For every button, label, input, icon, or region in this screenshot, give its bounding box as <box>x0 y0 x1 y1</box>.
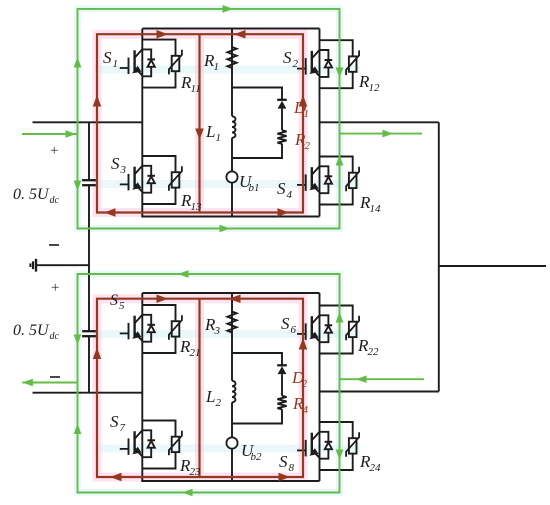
wire top bridge R1 branch <box>231 29 233 217</box>
wire DC link vertical <box>88 122 90 392</box>
node plus upper <box>50 143 58 159</box>
anti-parallel diode of S8 <box>325 442 333 449</box>
voltage source Ub1 <box>226 171 237 182</box>
svg-text:6: 6 <box>291 324 297 336</box>
label R13 <box>180 191 202 213</box>
inductor L1 <box>232 116 236 138</box>
label R21 <box>179 337 201 359</box>
IGBT S7 <box>120 430 143 456</box>
wire diode branch of S7 <box>142 430 151 457</box>
IGBT S2 <box>297 50 320 76</box>
wire output to right edge <box>439 265 546 267</box>
label 0.5Udc lower <box>13 322 60 342</box>
wire top bridge right leg <box>319 29 321 217</box>
label S4 <box>277 179 293 201</box>
svg-text:S: S <box>277 179 286 198</box>
wire varistor branch of S3 <box>142 156 175 204</box>
inductor L2 <box>232 381 236 403</box>
wire top bridge bottom rail <box>141 216 319 218</box>
svg-text:b2: b2 <box>251 451 263 463</box>
wire bottom bridge top rail <box>142 292 319 294</box>
svg-text:11: 11 <box>191 83 201 95</box>
varistor of S2 <box>346 50 359 75</box>
wire top midpoint line right <box>320 121 439 123</box>
wire varistor branch of S7 <box>142 421 175 469</box>
svg-text:23: 23 <box>190 466 202 478</box>
node green arrows top <box>66 5 394 232</box>
varistor of S8 <box>346 432 359 457</box>
label R23 <box>179 456 201 478</box>
label S2 <box>283 48 299 70</box>
svg-text:1: 1 <box>113 58 119 70</box>
label D1 <box>293 98 309 120</box>
anti-parallel diode of S3 <box>147 176 155 183</box>
IGBT S3 <box>120 166 143 192</box>
wire bottom inner load loop <box>232 353 282 424</box>
svg-text:+: + <box>50 143 58 159</box>
wire top inner load loop <box>232 88 282 159</box>
label 0.5Udc upper <box>13 186 60 206</box>
label D2 <box>291 368 308 390</box>
resistor R4 <box>277 396 286 410</box>
resistor R2 <box>277 130 286 144</box>
node green arrows bottom <box>22 270 366 496</box>
svg-text:S: S <box>279 452 288 471</box>
label Ub2 <box>241 441 262 463</box>
resistor R1 <box>227 47 236 68</box>
svg-text:+: + <box>51 280 59 296</box>
svg-text:4: 4 <box>287 189 293 201</box>
wire top midpoint line left <box>33 121 143 123</box>
svg-text:1: 1 <box>214 61 220 73</box>
svg-text:3: 3 <box>214 325 221 337</box>
anti-parallel diode of S2 <box>325 60 333 67</box>
svg-text:2: 2 <box>305 140 311 152</box>
wire top bridge left leg <box>141 29 143 217</box>
svg-text:S: S <box>103 48 112 67</box>
IGBT S4 <box>297 166 320 192</box>
svg-text:13: 13 <box>191 201 203 213</box>
anti-parallel diode of S5 <box>147 325 155 332</box>
svg-text:4: 4 <box>303 404 309 416</box>
wire bottom bridge bottom rail <box>141 480 319 482</box>
svg-text:L: L <box>205 122 215 141</box>
anti-parallel diode of S1 <box>147 59 155 66</box>
wire green loop top bridge <box>78 9 340 229</box>
label R11 <box>180 73 201 95</box>
diode D2 <box>277 365 287 374</box>
wire varistor branch of S6 <box>320 306 353 354</box>
label R12 <box>358 72 380 94</box>
label R22 <box>357 336 379 358</box>
varistor of S4 <box>346 167 359 192</box>
wire green loop bottom bridge <box>78 274 340 493</box>
ground <box>30 259 36 272</box>
node minus lower <box>50 376 60 378</box>
label S6 <box>281 314 297 336</box>
svg-text:dc: dc <box>50 195 60 206</box>
varistor of S5 <box>169 315 182 340</box>
svg-text:L: L <box>205 387 215 406</box>
wire diode branch of S5 <box>142 315 151 342</box>
voltage source Ub2 <box>226 437 237 448</box>
node red arrows top <box>93 30 308 217</box>
varistor of S1 <box>169 50 182 75</box>
label S5 <box>110 292 125 312</box>
wire bottom bridge right leg <box>319 293 321 481</box>
label L1 <box>205 122 221 144</box>
wire red loop top bridge <box>97 34 303 212</box>
label R1 <box>203 51 219 73</box>
label Ub1 <box>239 172 260 194</box>
wire bottom bridge left leg <box>141 293 143 481</box>
wire diode branch of S6 <box>320 315 329 342</box>
diode D1 <box>277 100 287 109</box>
anti-parallel diode of S6 <box>325 325 333 332</box>
varistor of S6 <box>346 316 359 341</box>
node red arrows bottom <box>93 294 308 481</box>
svg-text:3: 3 <box>120 164 127 176</box>
svg-text:S: S <box>111 154 120 173</box>
anti-parallel diode of S7 <box>147 440 155 447</box>
wire top bridge top rail <box>142 28 319 30</box>
svg-text:2: 2 <box>302 378 308 390</box>
svg-text:0. 5U: 0. 5U <box>13 186 50 203</box>
wire varistor branch of S2 <box>320 40 353 88</box>
IGBT S1 <box>120 49 143 75</box>
wire bottom midpoint line left <box>33 392 143 394</box>
wire diode branch of S2 <box>320 50 329 77</box>
svg-text:S: S <box>281 314 290 333</box>
svg-text:12: 12 <box>369 82 381 94</box>
label R24 <box>359 452 381 474</box>
wire diode branch of S1 <box>142 49 151 76</box>
wire varistor branch of S4 <box>320 157 353 205</box>
IGBT S6 <box>297 315 320 341</box>
svg-text:S: S <box>283 48 292 67</box>
svg-text:1: 1 <box>304 108 310 120</box>
wire green stub in right bottom <box>340 378 425 380</box>
wire bottom bridge R3 branch <box>231 293 233 481</box>
svg-text:2: 2 <box>216 397 222 409</box>
svg-text:0. 5U: 0. 5U <box>13 322 50 339</box>
wire diode branch of S8 <box>320 432 329 459</box>
wire diode branch of S3 <box>142 166 151 193</box>
wire ground stub <box>36 264 89 266</box>
IGBT S5 <box>120 315 143 341</box>
anti-parallel diode of S4 <box>325 176 333 183</box>
wire red middle bottom bridge <box>198 299 200 477</box>
wire green stub out left bottom <box>22 382 77 384</box>
wire diode branch of S4 <box>320 166 329 193</box>
svg-text:1: 1 <box>216 132 222 144</box>
svg-text:S: S <box>110 292 118 309</box>
wire varistor branch of S1 <box>142 40 175 88</box>
label S1 <box>103 48 118 70</box>
label R4 <box>292 394 309 416</box>
wire varistor branch of S8 <box>320 422 353 470</box>
varistor of S3 <box>169 166 182 191</box>
svg-text:22: 22 <box>368 346 380 358</box>
wire red middle top bridge <box>198 34 200 212</box>
svg-text:21: 21 <box>190 347 201 359</box>
node plus lower <box>51 280 59 296</box>
capacitor upper 0.5Udc <box>82 180 96 185</box>
svg-text:5: 5 <box>119 300 125 312</box>
svg-text:2: 2 <box>293 58 299 70</box>
svg-text:7: 7 <box>120 422 126 434</box>
capacitor lower 0.5Udc <box>82 331 96 336</box>
label S7 <box>110 412 126 434</box>
svg-text:14: 14 <box>370 203 382 215</box>
wire output vertical <box>438 122 440 391</box>
node minus upper <box>49 244 59 246</box>
wire varistor branch of S5 <box>142 305 175 353</box>
svg-text:b1: b1 <box>249 182 260 194</box>
wire red loop bottom bridge <box>97 299 303 477</box>
wire green stub out right top <box>340 133 423 135</box>
IGBT S8 <box>297 432 320 458</box>
label R3 <box>204 315 221 337</box>
label L2 <box>205 387 222 409</box>
wire bottom midpoint line right <box>320 391 439 393</box>
svg-text:S: S <box>110 412 119 431</box>
resistor R3 <box>227 312 236 333</box>
label S8 <box>279 452 295 474</box>
svg-text:dc: dc <box>50 331 60 342</box>
svg-text:24: 24 <box>370 462 382 474</box>
varistor of S7 <box>169 431 182 456</box>
label S3 <box>111 154 127 176</box>
svg-text:8: 8 <box>289 462 295 474</box>
wire green stub in left top <box>22 133 78 135</box>
label R14 <box>359 193 381 215</box>
label R2 <box>294 130 311 152</box>
